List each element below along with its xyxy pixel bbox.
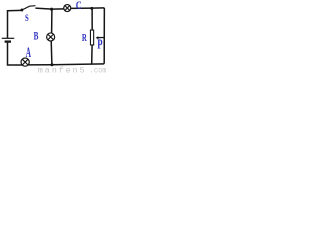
slider arrowhead xyxy=(96,36,99,39)
svg-text:P: P xyxy=(97,38,102,52)
wire resistor branch lower vertical xyxy=(91,45,93,65)
watermark manfen5.com xyxy=(38,66,107,76)
lamp A cross xyxy=(22,59,28,65)
wire lamp B branch lower vertical xyxy=(50,41,53,65)
switch S arm xyxy=(22,6,35,10)
svg-text:R: R xyxy=(82,31,88,43)
svg-text:C: C xyxy=(76,0,82,12)
svg-text:B: B xyxy=(34,30,39,43)
wire right edge vertical xyxy=(103,8,105,64)
wire top segment between switch and lamp C xyxy=(35,8,64,9)
svg-text:manfen5: manfen5 xyxy=(38,66,87,74)
lamp B cross xyxy=(48,34,54,40)
lamp C cross xyxy=(65,5,70,10)
lamp B circle xyxy=(47,33,55,41)
wire left lower vertical and bottom-left corner xyxy=(8,43,24,65)
wire potentiometer slider horizontal xyxy=(97,37,105,39)
wire node junction dot top of resistor branch xyxy=(90,7,93,10)
wire node junction dot bottom of lamp B branch xyxy=(51,63,54,66)
svg-text:S: S xyxy=(25,13,29,23)
svg-text:.com: .com xyxy=(90,67,107,73)
wire top-left corner and left upper vertical xyxy=(8,10,21,38)
lamp C circle xyxy=(64,5,71,12)
wire resistor branch upper vertical xyxy=(91,8,93,30)
wire top segment between lamp C and top-right corner xyxy=(70,7,104,9)
wire node junction dot top of lamp B branch xyxy=(50,8,53,11)
svg-text:A: A xyxy=(26,44,32,61)
wire lamp B branch upper vertical xyxy=(51,9,53,34)
battery cell long plate xyxy=(2,37,14,39)
lamp A circle xyxy=(21,58,29,66)
battery cell short thick plate xyxy=(5,40,11,42)
wire bottom segment from lamp A to bottom-right corner xyxy=(27,64,104,65)
switch pivot dot xyxy=(20,9,23,12)
resistor R box xyxy=(90,30,93,45)
